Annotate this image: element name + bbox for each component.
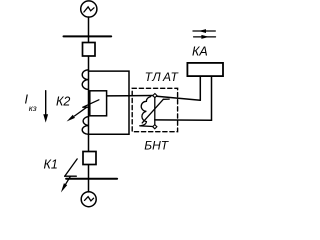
breaker Q1 (top square) <box>83 43 96 57</box>
svg-text:К1: К1 <box>44 158 58 172</box>
generator G1 (top AC source) <box>81 1 97 17</box>
svg-text:ТЛАТ: ТЛАТ <box>145 70 180 84</box>
winding section box (tapped section) <box>90 91 107 116</box>
wire: BNT bottom link <box>140 125 153 128</box>
winding upper arcs of TLAT <box>82 70 88 90</box>
svg-text:КА: КА <box>192 44 208 58</box>
wire: line B to relay <box>155 76 212 120</box>
BNT adjustment diagonal <box>142 99 169 123</box>
relay KA double arrow symbol <box>193 31 216 37</box>
wire: line A to relay <box>107 76 201 100</box>
wire: main vertical feeder <box>88 17 90 192</box>
svg-text:К2: К2 <box>56 94 70 108</box>
winding lower arcs of TLAT <box>82 117 88 135</box>
BNT core stem <box>154 98 156 125</box>
fault arrow K1 <box>65 159 78 186</box>
node: top busbar <box>64 35 112 37</box>
BNT dashed enclosure <box>132 88 177 131</box>
arrow: fault current direction <box>45 91 47 116</box>
node: bottom busbar <box>66 178 117 180</box>
BNT winding arcs <box>141 97 150 126</box>
generator G2 (bottom AC source) <box>81 192 96 207</box>
breaker Q2 (bottom square) <box>83 152 96 165</box>
fault arrow K2 <box>75 100 99 116</box>
svg-text:БНТ: БНТ <box>144 139 169 153</box>
node: diamond terminal bottom <box>153 125 157 129</box>
relay KA box <box>187 63 223 76</box>
current transformer TLAT secondary loop <box>89 71 130 134</box>
svg-text:кз: кз <box>29 103 37 113</box>
node: diamond terminal top <box>153 94 157 98</box>
